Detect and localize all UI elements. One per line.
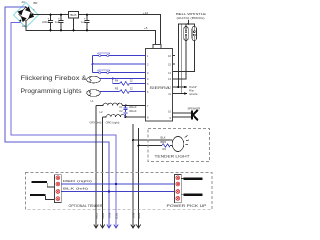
svg-text:22: 22 — [130, 87, 133, 91]
reed switch bell — [184, 27, 188, 41]
pin15 stub — [173, 63, 175, 65]
tender pickup bar 2 — [30, 194, 46, 196]
bottom arrow GRY — [94, 213, 141, 228]
svg-text:TENDER LIGHT: TENDER LIGHT — [155, 154, 190, 158]
svg-text:remote: remote — [189, 92, 198, 96]
wire reed aux2 vertical — [180, 24, 182, 94]
wire pin6 with resistor R5 — [100, 87, 146, 94]
svg-text:+: + — [33, 8, 35, 12]
svg-text:R5: R5 — [115, 87, 119, 91]
svg-text:Programming Lights: Programming Lights — [21, 89, 82, 95]
bottom arrow ORG — [100, 225, 104, 229]
svg-text:BLK: BLK — [131, 213, 135, 218]
power connector J2 — [174, 174, 181, 202]
wire RED right — [61, 183, 174, 185]
wire reed whistle to pin 14 — [173, 41, 195, 72]
svg-text:On/off: On/off — [189, 85, 197, 89]
wire common vertical — [92, 56, 94, 73]
svg-text:RED: RED — [114, 213, 118, 219]
wire BLK left — [61, 191, 174, 193]
svg-text:L1: L1 — [91, 99, 94, 103]
svg-text:OPTIONAL TENDER: OPTIONAL TENDER — [69, 204, 104, 208]
wire pin3 — [93, 72, 146, 74]
wire speaker + — [173, 112, 192, 114]
lamp DS2 — [87, 90, 101, 97]
bottom arrow BRN tender light — [136, 225, 140, 229]
svg-text:-: - — [15, 10, 16, 14]
wire ORG motor — [102, 117, 104, 228]
capacitor C (1uF) — [55, 14, 64, 32]
tender pickup bar 1 — [32, 181, 47, 183]
capacitor C1 C2 — [119, 105, 137, 119]
wire reed bell to pin 13 — [173, 41, 187, 80]
svg-text:AC: AC — [22, 24, 26, 28]
lamp DS1 — [87, 76, 101, 83]
wire +12 rail — [33, 15, 161, 45]
svg-text:+5: +5 — [144, 26, 148, 30]
svg-text:1uF: 1uF — [81, 20, 86, 24]
wire pin4 — [100, 78, 146, 80]
svg-text:220uF: 220uF — [42, 20, 50, 24]
wire speaker - — [173, 116, 192, 118]
power pickup bar 2 — [184, 193, 203, 196]
pin numbers left — [147, 54, 149, 120]
capacitor C (10uF) — [81, 14, 90, 32]
power pickup bar 1 — [184, 177, 203, 180]
wire pin12 on/off arrow — [173, 85, 197, 89]
voltage regulator 78L05 — [69, 12, 79, 32]
inductor L1 — [91, 99, 146, 106]
bottom arrow BLK rail — [107, 225, 111, 229]
svg-text:SPEAKER: SPEAKER — [188, 106, 201, 110]
svg-text:1uF: 1uF — [55, 20, 60, 24]
wire pin1 — [93, 55, 146, 57]
wire pin11 remote arrow — [173, 89, 198, 96]
switch S2 — [98, 70, 110, 74]
speaker SP1 — [191, 110, 198, 121]
inductor L2 — [100, 110, 146, 117]
bridge rectifier BR1 — [14, 0, 39, 28]
svg-text:BLK (left): BLK (left) — [63, 186, 88, 190]
svg-text:(AUX1) (PROG): (AUX1) (PROG) — [177, 16, 205, 20]
svg-text:BRN: BRN — [161, 140, 167, 144]
svg-text:BRN: BRN — [137, 213, 141, 219]
pin numbers right — [168, 54, 171, 120]
svg-text:L2: L2 — [100, 110, 103, 114]
wire GRY motor — [95, 106, 97, 229]
svg-text:GRY (left): GRY (left) — [90, 121, 102, 125]
tender light dashed box — [148, 129, 210, 162]
wire AC input 1 (top, to left edge) — [5, 7, 109, 228]
svg-text:BR: BR — [34, 1, 38, 5]
svg-text:+: + — [48, 16, 50, 20]
wire tender light BLK — [132, 124, 134, 228]
svg-text:+: + — [84, 16, 86, 20]
svg-text:.001uF: .001uF — [129, 105, 137, 109]
svg-text:GRY: GRY — [94, 213, 98, 219]
svg-text:+12: +12 — [143, 11, 148, 15]
svg-text:ORG (right): ORG (right) — [106, 121, 120, 125]
svg-text:AC: AC — [22, 0, 26, 4]
tender lamp — [172, 136, 189, 152]
wire AC input 2 (left corner, to left edge) — [11, 22, 116, 228]
IC U1 SIERRA — [146, 45, 173, 122]
tender connector J1 — [55, 175, 62, 203]
svg-text:ORG: ORG — [101, 213, 105, 219]
svg-text:C2: C2 — [119, 110, 123, 113]
svg-text:R2: R2 — [163, 147, 167, 151]
wire reed common to pin12 on/off — [178, 24, 194, 87]
optional tender / power pickup dashed box — [25, 173, 212, 210]
svg-text:C1: C1 — [119, 106, 123, 109]
svg-text:BLK: BLK — [161, 136, 166, 140]
bottom arrow BLK tender light — [131, 225, 135, 229]
wire pin5 with resistor R4 — [113, 78, 146, 85]
svg-text:R4: R4 — [115, 78, 119, 82]
svg-text:+: + — [58, 16, 60, 20]
svg-text:BLK: BLK — [107, 213, 111, 218]
bottom arrow RED rail — [114, 225, 118, 229]
wire tender light BRN with resistor R2 — [138, 128, 140, 228]
svg-text:.001uF: .001uF — [129, 109, 137, 113]
reed switch whistle — [192, 27, 196, 41]
switch S1 — [98, 53, 110, 57]
svg-text:POWER PICK UP: POWER PICK UP — [167, 204, 207, 208]
wire ground/+5 rail — [26, 21, 156, 44]
svg-text:22: 22 — [130, 78, 133, 82]
svg-text:Flickering Firebox &: Flickering Firebox & — [21, 76, 87, 82]
pin16 stub — [173, 55, 175, 57]
wire pin2 — [93, 63, 146, 65]
svg-text:RED (right): RED (right) — [63, 179, 92, 183]
capacitor C (220uF) — [42, 14, 53, 32]
svg-text:78L05: 78L05 — [70, 14, 78, 17]
